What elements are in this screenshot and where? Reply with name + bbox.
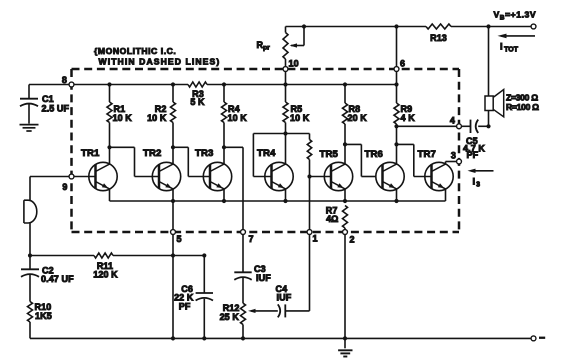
svg-text:10: 10 [289,59,299,69]
svg-text:3: 3 [451,151,456,161]
svg-text:4: 4 [450,116,455,126]
svg-text:PF: PF [179,302,191,312]
svg-text:PF: PF [467,150,479,160]
svg-text:0.47 UF: 0.47 UF [41,274,74,284]
svg-text:R=100 Ω: R=100 Ω [506,102,539,112]
svg-text:9: 9 [62,182,67,192]
svg-text:8: 8 [62,75,67,85]
svg-text:10 K: 10 K [113,113,133,123]
svg-text:4 K: 4 K [401,113,416,123]
svg-text:R13: R13 [430,33,447,43]
svg-text:Z=300 Ω: Z=300 Ω [506,93,538,103]
svg-text:C1: C1 [42,94,54,104]
svg-text:I3: I3 [473,176,481,189]
svg-text:4Ω: 4Ω [326,214,338,224]
svg-text:1K5: 1K5 [35,311,52,321]
svg-text:TR7: TR7 [418,149,436,160]
svg-text:{MONOLITHIC I.C.: {MONOLITHIC I.C. [94,46,176,56]
svg-text:TR3: TR3 [195,148,213,159]
svg-text:7: 7 [249,234,254,244]
svg-text:TR5: TR5 [320,149,339,160]
svg-text:Rpr: Rpr [257,40,271,52]
svg-text:6: 6 [400,59,405,69]
svg-text:TR1: TR1 [81,148,100,159]
svg-text:2: 2 [350,235,355,245]
svg-text:VB=+1.3V: VB=+1.3V [494,10,537,22]
svg-text:1: 1 [313,234,318,244]
svg-text:25 K: 25 K [220,312,240,322]
svg-text:TR2: TR2 [143,148,161,159]
svg-text:5 K: 5 K [190,97,205,107]
svg-text:IUF: IUF [256,273,271,283]
svg-text:TR4: TR4 [257,148,276,159]
svg-text:10 K: 10 K [228,113,248,123]
svg-text:ITOT: ITOT [500,41,519,54]
svg-text:2.5 UF: 2.5 UF [42,104,70,114]
svg-text:WITHIN DASHED LINES): WITHIN DASHED LINES) [99,57,221,67]
svg-text:120 K: 120 K [93,270,118,280]
svg-text:20 K: 20 K [348,113,368,123]
svg-text:TR6: TR6 [365,149,383,160]
svg-text:IUF: IUF [277,293,292,303]
svg-text:5: 5 [177,234,182,244]
svg-text:10 K: 10 K [147,113,167,123]
svg-text:10 K: 10 K [290,113,310,123]
